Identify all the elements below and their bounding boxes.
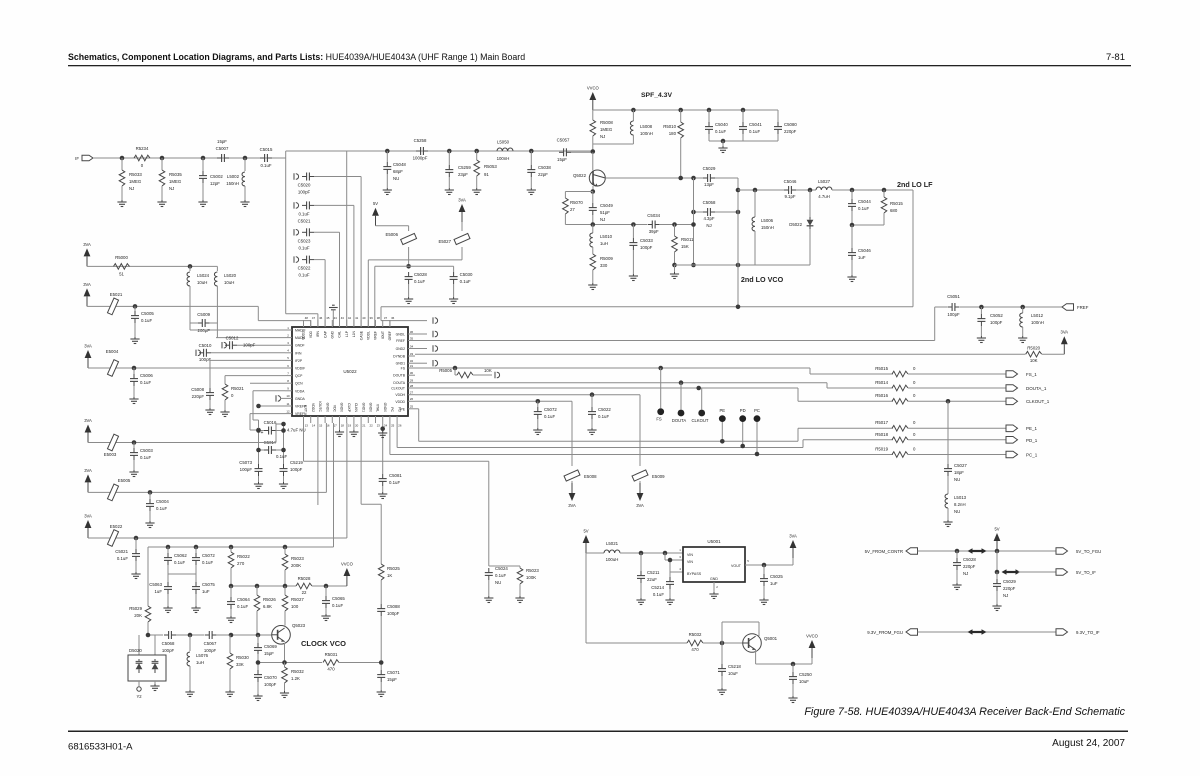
svg-text:3VA: 3VA <box>1060 330 1068 335</box>
svg-text:E5009: E5009 <box>652 474 665 479</box>
svg-text:46: 46 <box>319 316 323 320</box>
svg-text:0.1uF: 0.1uF <box>414 279 425 284</box>
svg-text:C5012: C5012 <box>226 336 239 341</box>
svg-text:NJ: NJ <box>706 223 711 228</box>
svg-text:100pF: 100pF <box>162 648 175 653</box>
svg-text:23pF: 23pF <box>458 172 468 177</box>
svg-text:5V_TO_IF: 5V_TO_IF <box>1076 570 1096 575</box>
svg-text:10uF: 10uF <box>728 671 738 676</box>
svg-text:51: 51 <box>119 272 124 277</box>
svg-text:5V: 5V <box>994 527 999 532</box>
svg-text:C5022: C5022 <box>298 266 311 271</box>
svg-text:C5080: C5080 <box>784 122 797 127</box>
svg-text:GREF: GREF <box>388 331 392 340</box>
svg-text:200K: 200K <box>291 563 301 568</box>
svg-text:GND: GND <box>710 577 718 581</box>
svg-text:1MEG: 1MEG <box>600 127 613 132</box>
svg-text:100K: 100K <box>526 575 536 580</box>
svg-text:CLKOUT_1: CLKOUT_1 <box>1026 399 1050 404</box>
svg-text:QCN: QCN <box>295 382 303 386</box>
svg-text:D5022: D5022 <box>789 222 802 227</box>
svg-text:11: 11 <box>286 402 289 406</box>
svg-text:GNDL: GNDL <box>396 333 406 337</box>
svg-text:29: 29 <box>410 379 414 383</box>
svg-text:330: 330 <box>600 263 608 268</box>
svg-text:August 24, 2007: August 24, 2007 <box>1052 738 1125 749</box>
svg-text:20: 20 <box>355 424 359 428</box>
svg-text:51pF: 51pF <box>600 210 610 215</box>
svg-text:19: 19 <box>348 424 352 428</box>
svg-text:NJ: NJ <box>129 186 134 191</box>
svg-text:L5013: L5013 <box>954 495 967 500</box>
svg-text:26: 26 <box>410 397 414 401</box>
svg-text:PD_1: PD_1 <box>1026 438 1038 443</box>
svg-text:Q5023: Q5023 <box>292 623 306 628</box>
svg-text:15: 15 <box>319 424 323 428</box>
svg-text:12pF: 12pF <box>210 181 220 186</box>
svg-text:C5046: C5046 <box>858 248 871 253</box>
svg-text:C5002: C5002 <box>210 174 223 179</box>
svg-text:L5021: L5021 <box>606 541 619 546</box>
svg-text:4.7uF NU: 4.7uF NU <box>287 428 306 433</box>
svg-text:C5029: C5029 <box>703 166 716 171</box>
svg-text:C5027: C5027 <box>954 463 967 468</box>
svg-text:VDC: VDC <box>333 405 337 413</box>
svg-text:100pF: 100pF <box>264 682 277 687</box>
svg-text:VDD2: VDD2 <box>311 403 315 412</box>
svg-text:VVCO: VVCO <box>587 86 600 91</box>
svg-text:0.1uF: 0.1uF <box>140 380 151 385</box>
svg-text:220pF: 220pF <box>192 394 205 399</box>
svg-text:R5020: R5020 <box>1027 345 1040 350</box>
svg-text:C5048: C5048 <box>393 162 406 167</box>
svg-text:C5218: C5218 <box>728 664 741 669</box>
svg-text:100nH: 100nH <box>640 131 653 136</box>
svg-text:C5034: C5034 <box>647 213 660 218</box>
svg-text:PE: PE <box>720 408 726 413</box>
svg-text:L1N: L1N <box>352 330 356 337</box>
svg-text:47: 47 <box>312 316 316 320</box>
svg-text:100pF: 100pF <box>947 312 960 317</box>
svg-text:R5032: R5032 <box>689 632 702 637</box>
svg-text:100pF: 100pF <box>640 245 653 250</box>
svg-text:C5005: C5005 <box>141 311 154 316</box>
svg-text:C5029: C5029 <box>1003 579 1016 584</box>
svg-text:C5008: C5008 <box>191 387 204 392</box>
svg-text:3VA: 3VA <box>458 198 466 203</box>
svg-text:1uH: 1uH <box>600 241 608 246</box>
svg-text:L5050: L5050 <box>497 140 510 145</box>
svg-text:0.1uF: 0.1uF <box>653 592 664 597</box>
svg-text:15K: 15K <box>681 244 689 249</box>
svg-text:NJ: NJ <box>963 571 968 576</box>
svg-text:33K: 33K <box>236 662 244 667</box>
svg-text:1uF: 1uF <box>858 255 866 260</box>
svg-text:39: 39 <box>369 316 373 320</box>
svg-text:3VA: 3VA <box>83 242 91 247</box>
svg-text:27: 27 <box>570 207 575 212</box>
svg-text:1uF: 1uF <box>155 589 163 594</box>
svg-text:35: 35 <box>410 336 414 340</box>
svg-text:C5004: C5004 <box>156 499 169 504</box>
svg-text:100pF: 100pF <box>243 343 256 348</box>
svg-text:36: 36 <box>410 330 414 334</box>
svg-text:0.1uF: 0.1uF <box>749 129 760 134</box>
svg-text:R5028: R5028 <box>298 576 311 581</box>
svg-text:PC: PC <box>754 408 760 413</box>
svg-text:26: 26 <box>398 424 402 428</box>
svg-text:R5031: R5031 <box>325 652 338 657</box>
svg-text:VDDA: VDDA <box>295 389 305 393</box>
svg-text:C5049: C5049 <box>600 203 613 208</box>
svg-text:Q5022: Q5022 <box>573 173 587 178</box>
svg-text:15pF: 15pF <box>264 651 274 656</box>
svg-text:DOUTA: DOUTA <box>393 381 405 385</box>
svg-text:XTAL: XTAL <box>376 404 380 412</box>
svg-text:100pF: 100pF <box>290 467 303 472</box>
svg-text:FREF: FREF <box>396 339 405 343</box>
svg-text:L5027: L5027 <box>818 179 831 184</box>
svg-text:C5015: C5015 <box>260 147 273 152</box>
svg-text:C5069: C5069 <box>264 644 277 649</box>
svg-text:R5234: R5234 <box>136 146 149 151</box>
svg-text:FS_1: FS_1 <box>1026 372 1037 377</box>
svg-text:C5072: C5072 <box>544 407 557 412</box>
svg-text:22uF: 22uF <box>647 577 657 582</box>
svg-text:VDD2: VDD2 <box>302 331 306 340</box>
svg-text:40: 40 <box>362 316 366 320</box>
svg-text:10uH: 10uH <box>197 280 207 285</box>
svg-text:C5041: C5041 <box>749 122 762 127</box>
svg-text:IOUTC: IOUTC <box>318 401 322 412</box>
svg-text:680: 680 <box>890 208 898 213</box>
svg-text:3VA: 3VA <box>84 514 92 519</box>
svg-text:L5006: L5006 <box>761 218 774 223</box>
svg-text:NU: NU <box>954 477 960 482</box>
svg-text:BYPASS: BYPASS <box>687 572 702 576</box>
svg-text:0.1uF: 0.1uF <box>298 273 309 278</box>
svg-text:VDDIF: VDDIF <box>295 367 305 371</box>
svg-text:3VA: 3VA <box>84 344 92 349</box>
svg-text:PC_1: PC_1 <box>1026 453 1038 458</box>
svg-text:R5008: R5008 <box>600 120 613 125</box>
svg-text:18: 18 <box>341 424 345 428</box>
svg-text:15pF: 15pF <box>217 139 227 144</box>
svg-text:0.1uF: 0.1uF <box>174 560 185 565</box>
svg-text:36: 36 <box>391 316 395 320</box>
svg-text:23: 23 <box>377 424 381 428</box>
svg-text:44: 44 <box>333 316 337 320</box>
svg-text:C5062: C5062 <box>174 553 187 558</box>
svg-text:10K: 10K <box>1030 358 1038 363</box>
svg-text:10uH: 10uH <box>224 280 234 285</box>
svg-text:PD: PD <box>740 408 746 413</box>
svg-text:39pF: 39pF <box>649 229 659 234</box>
svg-text:32: 32 <box>410 359 414 363</box>
svg-text:L5008: L5008 <box>640 124 653 129</box>
svg-text:GNDF: GNDF <box>295 344 305 348</box>
svg-text:270: 270 <box>237 561 245 566</box>
svg-text:22pF: 22pF <box>538 172 548 177</box>
svg-text:C5003: C5003 <box>140 448 153 453</box>
svg-text:DOUTA: DOUTA <box>672 418 687 423</box>
svg-text:C5250: C5250 <box>799 672 812 677</box>
svg-text:R5015: R5015 <box>875 366 888 371</box>
svg-text:22: 22 <box>369 424 373 428</box>
svg-text:4.3pF: 4.3pF <box>703 216 714 221</box>
svg-text:E5004: E5004 <box>106 349 119 354</box>
svg-text:4.7uH: 4.7uH <box>818 194 830 199</box>
svg-text:R5035: R5035 <box>169 172 182 177</box>
svg-text:GNDA: GNDA <box>295 397 306 401</box>
svg-text:R5025: R5025 <box>387 566 400 571</box>
svg-text:L5012: L5012 <box>1031 313 1044 318</box>
svg-text:C5033: C5033 <box>640 238 653 243</box>
svg-text:68pF: 68pF <box>393 169 403 174</box>
svg-text:0.1uF: 0.1uF <box>260 163 271 168</box>
svg-text:C5073: C5073 <box>239 460 252 465</box>
svg-text:L1P: L1P <box>345 330 349 337</box>
svg-text:10K: 10K <box>484 368 492 373</box>
svg-text:NU: NU <box>393 176 399 181</box>
svg-text:IRN: IRN <box>316 330 320 336</box>
svg-text:CLKOUT: CLKOUT <box>692 418 709 423</box>
svg-text:IF2P: IF2P <box>295 359 303 363</box>
svg-text:18pF: 18pF <box>954 470 964 475</box>
svg-text:GND0: GND0 <box>369 403 373 413</box>
svg-text:C5057: C5057 <box>557 138 570 143</box>
svg-text:12: 12 <box>286 409 290 413</box>
svg-text:0.1uF: 0.1uF <box>156 506 167 511</box>
svg-text:R5016: R5016 <box>875 393 888 398</box>
svg-text:2nd LO LF: 2nd LO LF <box>897 180 933 189</box>
svg-text:C5007: C5007 <box>216 146 229 151</box>
svg-text:VDDD: VDDD <box>395 400 405 404</box>
svg-text:FS: FS <box>656 417 662 422</box>
svg-text:PC: PC <box>390 407 394 412</box>
svg-text:NJ: NJ <box>1003 593 1008 598</box>
svg-text:9.3V_FROM_FGU: 9.3V_FROM_FGU <box>867 630 903 635</box>
svg-text:R5027: R5027 <box>291 597 304 602</box>
svg-text:R5019: R5019 <box>875 447 888 452</box>
svg-text:6816533H01-A: 6816533H01-A <box>68 742 133 753</box>
svg-text:+: + <box>261 430 264 436</box>
svg-text:C5058: C5058 <box>703 200 716 205</box>
svg-text:PE_1: PE_1 <box>1026 426 1038 431</box>
svg-text:R5018: R5018 <box>875 432 888 437</box>
svg-text:3VA: 3VA <box>83 282 91 287</box>
svg-text:CAP: CAP <box>323 330 327 338</box>
svg-text:1000pF: 1000pF <box>413 156 428 161</box>
svg-text:0.1uF: 0.1uF <box>460 279 471 284</box>
svg-text:R5070: R5070 <box>570 200 583 205</box>
svg-text:E5022: E5022 <box>110 524 123 529</box>
svg-text:VIN: VIN <box>687 553 693 557</box>
svg-text:C5259: C5259 <box>458 165 471 170</box>
svg-text:R5032: R5032 <box>291 669 304 674</box>
svg-text:C5021: C5021 <box>298 218 311 223</box>
svg-text:3VA: 3VA <box>789 534 797 539</box>
svg-text:0.1uF: 0.1uF <box>276 454 287 459</box>
svg-text:150nH: 150nH <box>226 181 239 186</box>
svg-text:NJ: NJ <box>600 217 605 222</box>
svg-text:E5008: E5008 <box>584 474 597 479</box>
svg-text:9.3V_TO_IF: 9.3V_TO_IF <box>1076 630 1100 635</box>
svg-text:0.1uF: 0.1uF <box>202 560 213 565</box>
svg-text:C5030: C5030 <box>460 272 473 277</box>
svg-text:DYNDB: DYNDB <box>393 355 406 359</box>
svg-text:5V_TO_FGU: 5V_TO_FGU <box>1076 549 1101 554</box>
svg-text:C5052: C5052 <box>990 313 1003 318</box>
svg-text:15pF: 15pF <box>387 677 397 682</box>
svg-text:C5258: C5258 <box>414 138 427 143</box>
svg-text:U5001: U5001 <box>707 539 721 544</box>
svg-text:NU: NU <box>495 580 501 585</box>
svg-text:C5081: C5081 <box>389 473 402 478</box>
svg-text:C5024: C5024 <box>495 566 508 571</box>
svg-text:1uF: 1uF <box>202 589 210 594</box>
svg-text:GND1: GND1 <box>396 362 406 366</box>
svg-text:48: 48 <box>305 316 309 320</box>
svg-text:220pF: 220pF <box>784 129 797 134</box>
svg-text:100: 100 <box>291 604 299 609</box>
svg-text:E5006: E5006 <box>385 232 398 237</box>
svg-text:C5068: C5068 <box>162 641 175 646</box>
svg-text:R5053: R5053 <box>484 164 497 169</box>
svg-text:0.1uF: 0.1uF <box>298 211 309 216</box>
svg-text:CLKOUT: CLKOUT <box>391 387 405 391</box>
svg-text:GND0: GND0 <box>383 403 387 413</box>
svg-text:5V_FROM_CONTR: 5V_FROM_CONTR <box>865 549 903 554</box>
svg-text:45: 45 <box>326 316 330 320</box>
svg-text:22: 22 <box>302 590 307 595</box>
svg-text:C5038: C5038 <box>538 165 551 170</box>
svg-text:SPF_4.3V: SPF_4.3V <box>641 92 672 99</box>
svg-text:C5040: C5040 <box>715 122 728 127</box>
svg-text:3VA: 3VA <box>636 503 644 508</box>
svg-text:91: 91 <box>484 172 489 177</box>
svg-text:220pF: 220pF <box>1003 586 1016 591</box>
svg-text:10uF: 10uF <box>799 679 809 684</box>
svg-text:5V: 5V <box>373 201 378 206</box>
svg-text:VVCO: VVCO <box>341 562 354 567</box>
svg-text:C5070: C5070 <box>264 675 277 680</box>
svg-text:24: 24 <box>384 424 388 428</box>
svg-text:0.1uF: 0.1uF <box>598 414 609 419</box>
svg-text:31: 31 <box>410 364 414 368</box>
svg-text:C5009: C5009 <box>197 312 210 317</box>
svg-text:43: 43 <box>341 316 345 320</box>
svg-text:NJ: NJ <box>169 186 174 191</box>
svg-text:8.2nH: 8.2nH <box>954 502 966 507</box>
svg-text:C5088: C5088 <box>387 604 400 609</box>
svg-text:1MEG: 1MEG <box>169 179 182 184</box>
svg-text:0.1uF: 0.1uF <box>715 129 726 134</box>
svg-text:100nH: 100nH <box>497 156 510 161</box>
svg-text:Schematics, Component Location: Schematics, Component Location Diagrams,… <box>68 52 525 62</box>
svg-text:C5006: C5006 <box>140 373 153 378</box>
svg-text:L5002: L5002 <box>227 174 240 179</box>
svg-text:IOUT: IOUT <box>381 331 385 339</box>
svg-text:470: 470 <box>691 647 699 652</box>
svg-text:EXT: EXT <box>304 405 308 412</box>
svg-text:37: 37 <box>384 316 388 320</box>
svg-text:R5029: R5029 <box>129 606 142 611</box>
svg-text:NJ: NJ <box>600 134 605 139</box>
svg-text:100pF: 100pF <box>990 320 1003 325</box>
svg-text:C5044: C5044 <box>858 199 871 204</box>
svg-text:C5046: C5046 <box>784 179 797 184</box>
svg-text:PD: PD <box>397 407 401 412</box>
svg-text:10: 10 <box>286 394 290 398</box>
svg-text:17: 17 <box>333 424 337 428</box>
svg-text:C5021: C5021 <box>115 549 128 554</box>
svg-text:GND1: GND1 <box>361 403 365 413</box>
svg-text:GND0: GND0 <box>325 403 329 413</box>
svg-text:3VA: 3VA <box>84 468 92 473</box>
svg-text:1.2K: 1.2K <box>291 676 300 681</box>
svg-text:42: 42 <box>348 316 352 320</box>
svg-text:34: 34 <box>410 344 414 348</box>
svg-text:C5023: C5023 <box>298 238 311 243</box>
svg-text:VOUT: VOUT <box>731 564 742 568</box>
svg-text:VDD: VDD <box>309 330 313 338</box>
svg-text:D5020: D5020 <box>129 648 142 653</box>
svg-text:7-81: 7-81 <box>1106 52 1125 63</box>
svg-text:IFIN: IFIN <box>295 351 302 355</box>
svg-text:150nH: 150nH <box>761 225 774 230</box>
svg-text:C5025: C5025 <box>770 574 783 579</box>
svg-text:470: 470 <box>327 667 335 672</box>
svg-text:100pF: 100pF <box>240 467 253 472</box>
svg-text:Q5001: Q5001 <box>764 636 778 641</box>
svg-text:0.1uF: 0.1uF <box>544 414 555 419</box>
svg-text:6.8K: 6.8K <box>263 604 272 609</box>
svg-text:VREFN: VREFN <box>295 412 307 416</box>
svg-text:20K: 20K <box>134 613 142 618</box>
svg-text:R5023: R5023 <box>291 556 304 561</box>
svg-text:0.1uF: 0.1uF <box>332 603 343 608</box>
svg-text:0.1uF: 0.1uF <box>298 245 309 250</box>
svg-text:0.1uF: 0.1uF <box>140 455 151 460</box>
svg-text:FS: FS <box>401 367 406 371</box>
svg-text:100uH: 100uH <box>606 557 619 562</box>
svg-text:25: 25 <box>391 424 395 428</box>
svg-text:15pF: 15pF <box>557 157 567 162</box>
svg-text:38: 38 <box>377 316 381 320</box>
svg-text:C5010: C5010 <box>199 343 212 348</box>
svg-text:1uH: 1uH <box>196 660 204 665</box>
svg-text:CAL: CAL <box>338 331 342 338</box>
svg-text:13pF: 13pF <box>704 182 714 187</box>
svg-text:14: 14 <box>312 424 316 428</box>
svg-text:5V: 5V <box>583 529 588 534</box>
svg-text:NU: NU <box>954 509 960 514</box>
svg-text:C5211: C5211 <box>647 570 660 575</box>
svg-text:FREF: FREF <box>1077 305 1089 310</box>
svg-text:L5024: L5024 <box>197 273 210 278</box>
svg-text:30: 30 <box>410 371 414 375</box>
svg-text:R5026: R5026 <box>263 597 276 602</box>
svg-text:C5020: C5020 <box>298 183 311 188</box>
svg-text:0.1uF: 0.1uF <box>237 604 248 609</box>
svg-text:L5020: L5020 <box>224 273 237 278</box>
svg-text:U5022: U5022 <box>343 369 357 374</box>
svg-text:CLOCK VCO: CLOCK VCO <box>301 639 346 648</box>
svg-text:1K: 1K <box>387 573 392 578</box>
svg-text:41: 41 <box>355 316 359 320</box>
svg-text:CASE: CASE <box>359 330 363 340</box>
